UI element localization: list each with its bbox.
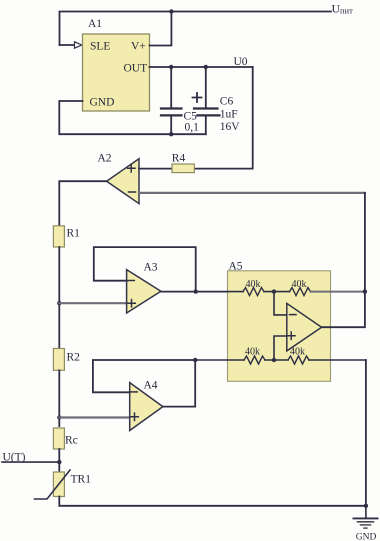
junction V+/top rail — [169, 9, 173, 13]
wire bottom row to right column — [309, 359, 366, 361]
svg-text:A2: A2 — [98, 153, 112, 165]
svg-text:Rc: Rc — [65, 435, 78, 447]
IC block A5 — [228, 271, 331, 382]
wire A3 minus feedback loop — [94, 247, 196, 292]
wire A2 plus input to R4 — [139, 168, 172, 170]
wire C5 bottom lead — [170, 116, 172, 134]
resistor 40k bottom-left — [244, 356, 265, 364]
wire A2 output to left rail — [59, 181, 106, 226]
junction A4 output/row — [193, 358, 197, 362]
label C6 value 1uF 16V — [220, 96, 241, 134]
junction OUT/C5 — [169, 65, 173, 69]
wire between top resistors — [264, 291, 290, 293]
svg-text:0,1: 0,1 — [185, 122, 200, 134]
wire C5 top lead — [170, 67, 172, 108]
wire op-amp output feedback — [322, 193, 365, 327]
wire rail TR1 to bottom — [59, 497, 366, 506]
svg-text:GND: GND — [90, 97, 115, 109]
thermistor TR1 — [53, 472, 64, 497]
op-amp A2 (inputs on right) — [107, 159, 139, 204]
node U0 label — [234, 56, 248, 68]
resistor 40k top-left — [243, 288, 264, 296]
wire A3 plus input — [59, 302, 126, 304]
wire top row to right column — [311, 291, 365, 293]
svg-text:GND: GND — [356, 533, 377, 541]
resistor 40k top-right — [290, 288, 311, 296]
node Upit label — [332, 2, 354, 16]
op-amp U5 inside A5 — [287, 303, 322, 351]
svg-text:40k: 40k — [245, 347, 260, 358]
SLE input arrow — [75, 42, 82, 48]
capacitor C5 — [161, 107, 182, 109]
wire A3 output to A5 — [161, 291, 243, 293]
wire U(T) — [2, 461, 59, 463]
svg-text:C6: C6 — [220, 96, 234, 108]
wire rail Rc to TR1 — [58, 449, 60, 472]
svg-text:40k: 40k — [292, 279, 307, 290]
svg-text:пит: пит — [340, 6, 353, 16]
wire A2 minus feedback to right column — [139, 192, 365, 194]
svg-text:1uF: 1uF — [220, 109, 238, 121]
node U(T) label — [3, 452, 26, 464]
wire U0 down to R4 — [194, 67, 252, 169]
wire top mid down to op-amp minus — [274, 292, 287, 315]
resistor R4 — [172, 164, 194, 173]
junction OUT/C6 — [204, 65, 208, 69]
label C5 value 0,1 — [184, 111, 200, 134]
junction C5 bottom — [169, 132, 173, 136]
resistor R2 — [53, 349, 64, 371]
wire C6 top lead — [205, 67, 207, 108]
wire A5 top row — [228, 291, 244, 293]
svg-text:TR1: TR1 — [71, 474, 92, 486]
svg-text:U0: U0 — [234, 56, 248, 68]
wire rail R1 to R2 — [58, 247, 60, 349]
svg-text:SLE: SLE — [90, 41, 110, 53]
capacitor C6 polarity plus — [193, 93, 202, 102]
svg-text:A3: A3 — [144, 262, 158, 274]
wire A4 plus input — [59, 416, 129, 418]
svg-text:A5: A5 — [229, 261, 243, 273]
wire op-amp plus lead — [274, 336, 287, 360]
junction A3 plus tap — [57, 301, 61, 305]
wire A4 output up to bottom row — [163, 360, 195, 407]
wire right column to ground rail — [365, 360, 367, 506]
wire C6 bottom lead — [205, 116, 207, 134]
junction A4 plus tap — [57, 415, 61, 419]
wire between bottom resistors — [265, 359, 288, 361]
wire GND loop of A1 — [59, 101, 206, 134]
wire SLE input — [60, 44, 75, 46]
resistor R1 — [53, 226, 64, 247]
op-amp A3 — [127, 270, 161, 313]
wire top rail to Upit — [60, 12, 332, 46]
wire A4 minus feedback loop — [93, 360, 195, 392]
svg-text:A4: A4 — [144, 380, 158, 392]
svg-text:40k: 40k — [246, 279, 261, 290]
svg-text:R4: R4 — [172, 153, 186, 165]
wire A5 bottom row — [195, 359, 244, 361]
A1 pin labels SLE V+ OUT GND — [88, 18, 147, 109]
ground symbol — [365, 506, 367, 518]
svg-text:R2: R2 — [67, 352, 81, 364]
junction ground rail — [364, 504, 368, 508]
svg-text:16V: 16V — [220, 121, 241, 133]
svg-text:V+: V+ — [131, 41, 146, 53]
resistor 40k bottom-right — [288, 356, 309, 364]
junction bottom mid — [272, 358, 276, 362]
svg-text:OUT: OUT — [124, 63, 148, 75]
op-amp A4 — [130, 383, 163, 431]
IC U A1 box — [83, 34, 150, 111]
junction U(T) tap — [57, 460, 61, 464]
capacitor C6 — [194, 107, 218, 109]
junction feedback node — [363, 289, 367, 293]
junction top mid — [272, 289, 276, 293]
svg-text:40k: 40k — [290, 347, 305, 358]
wire V+ to top rail — [150, 12, 172, 46]
junction A3 output/feedback — [194, 289, 198, 293]
svg-text:A1: A1 — [88, 18, 102, 30]
resistor Rc — [53, 428, 64, 449]
svg-text:R1: R1 — [67, 228, 81, 240]
wire OUT rail — [150, 66, 253, 68]
wire rail R2 to Rc — [58, 370, 60, 426]
